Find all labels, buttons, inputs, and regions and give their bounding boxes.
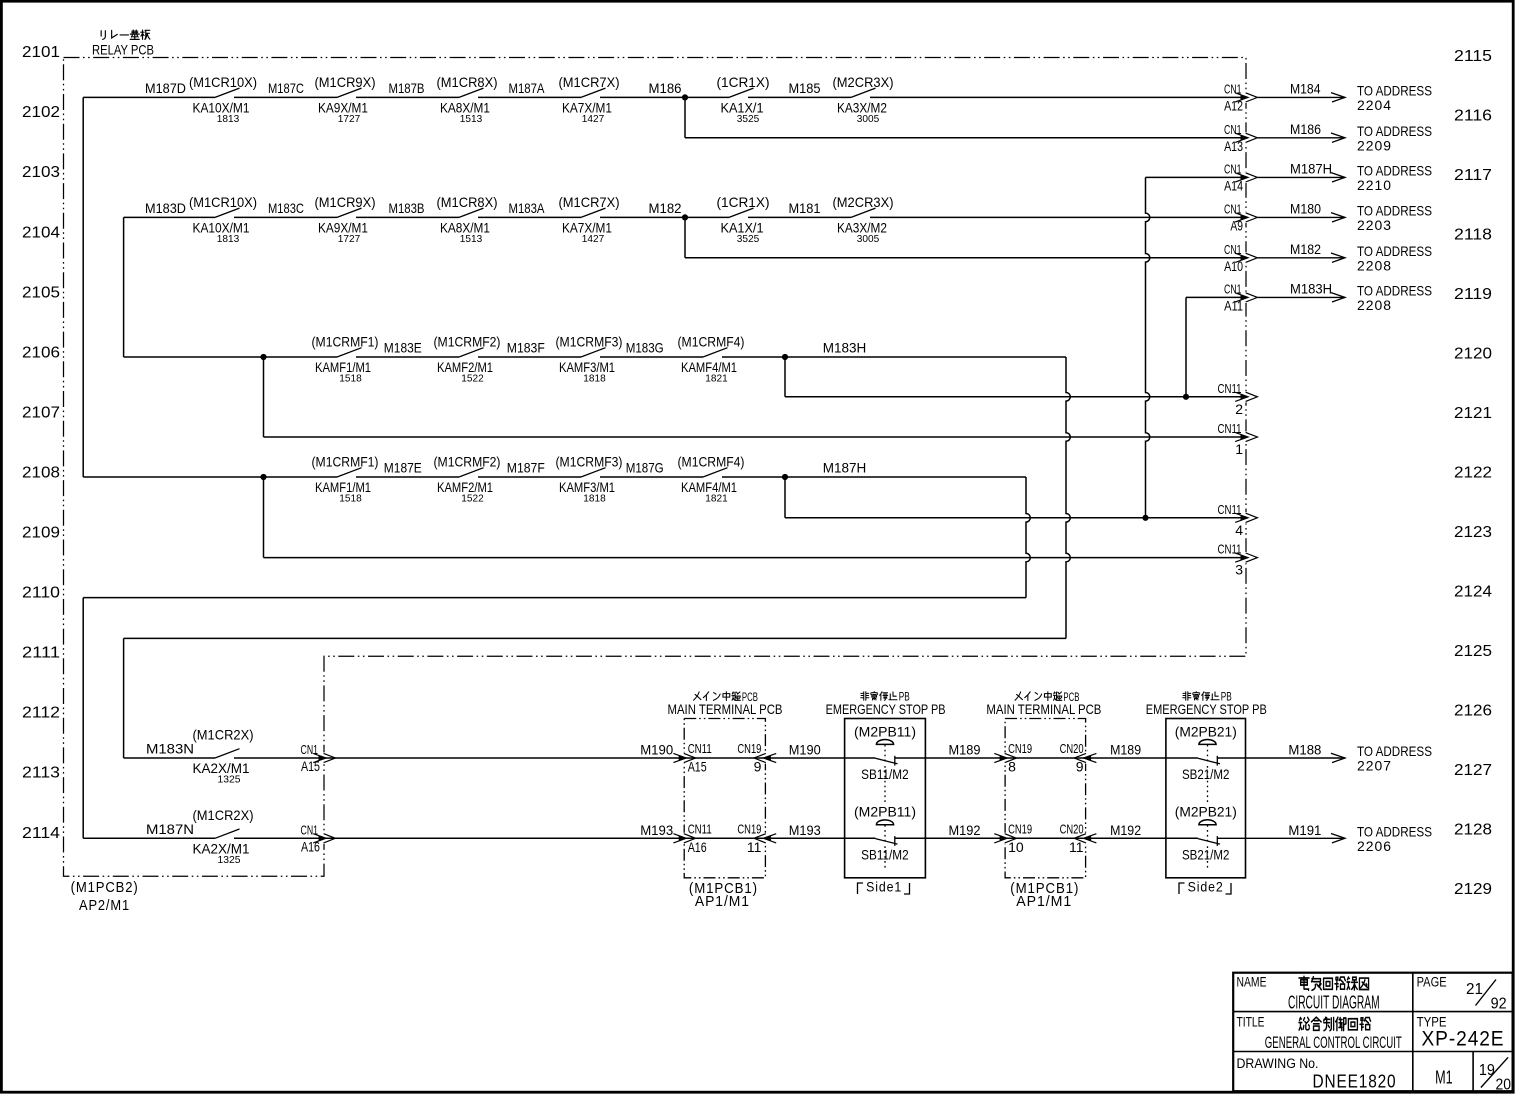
svg-text:(M1CRMF3): (M1CRMF3) (556, 454, 623, 470)
svg-text:TO ADDRESS: TO ADDRESS (1357, 282, 1432, 298)
svg-text:M190: M190 (789, 742, 821, 758)
svg-text:2108: 2108 (22, 464, 60, 481)
svg-text:(M1CR7X): (M1CR7X) (559, 194, 620, 210)
svg-text:(M1CRMF3): (M1CRMF3) (556, 334, 623, 350)
svg-text:2112: 2112 (22, 705, 60, 722)
svg-text:TO ADDRESS: TO ADDRESS (1357, 123, 1432, 139)
svg-text:CN1: CN1 (1224, 243, 1242, 257)
svg-text:2113: 2113 (22, 765, 60, 782)
svg-text:CN19: CN19 (737, 822, 761, 836)
svg-text:2106: 2106 (22, 344, 60, 361)
svg-text:M193: M193 (789, 822, 821, 838)
svg-text:2206: 2206 (1357, 838, 1392, 854)
svg-text:M188: M188 (1288, 742, 1321, 758)
svg-text:2126: 2126 (1454, 703, 1492, 720)
svg-text:20: 20 (1496, 1076, 1512, 1093)
svg-text:2101: 2101 (22, 44, 60, 61)
svg-text:1818: 1818 (583, 373, 606, 385)
svg-text:NAME: NAME (1237, 975, 1267, 990)
svg-text:4: 4 (1235, 522, 1243, 538)
svg-text:2124: 2124 (1454, 584, 1492, 601)
svg-text:2123: 2123 (1454, 524, 1492, 541)
svg-text:M183E: M183E (384, 340, 422, 356)
svg-text:2118: 2118 (1454, 227, 1492, 244)
svg-text:SB11/M2: SB11/M2 (861, 766, 909, 782)
svg-text:2104: 2104 (22, 224, 60, 241)
svg-text:XP-242E: XP-242E (1422, 1028, 1505, 1051)
svg-text:CIRCUIT DIAGRAM: CIRCUIT DIAGRAM (1288, 992, 1380, 1013)
svg-text:CN19: CN19 (1008, 742, 1032, 756)
svg-text:A16: A16 (688, 839, 707, 855)
svg-text:(M2CR3X): (M2CR3X) (833, 74, 894, 90)
svg-text:M187C: M187C (268, 80, 304, 96)
svg-text:9: 9 (1076, 759, 1084, 775)
svg-text:(M1CR8X): (M1CR8X) (437, 74, 498, 90)
svg-text:EMERGENCY STOP PB: EMERGENCY STOP PB (826, 701, 946, 717)
svg-text:TO ADDRESS: TO ADDRESS (1357, 162, 1432, 178)
svg-text:A16: A16 (301, 839, 320, 855)
svg-text:3525: 3525 (737, 113, 760, 125)
svg-text:2116: 2116 (1454, 108, 1492, 125)
svg-text:1821: 1821 (705, 493, 728, 505)
svg-text:M193: M193 (640, 822, 673, 838)
svg-text:M187F: M187F (507, 460, 545, 476)
svg-text:2114: 2114 (22, 825, 60, 842)
svg-text:CN1: CN1 (301, 823, 319, 837)
svg-text:2109: 2109 (22, 525, 60, 542)
svg-text:3005: 3005 (857, 113, 880, 125)
svg-text:92: 92 (1491, 996, 1507, 1013)
svg-text:(M1CR2X): (M1CR2X) (193, 807, 254, 823)
svg-text:CN11: CN11 (1218, 503, 1242, 517)
svg-text:M183G: M183G (626, 340, 664, 356)
svg-text:1513: 1513 (460, 113, 483, 125)
svg-text:2128: 2128 (1454, 822, 1492, 839)
svg-text:CN1: CN1 (1224, 82, 1242, 96)
svg-text:Side1: Side1 (866, 879, 902, 895)
svg-text:2111: 2111 (22, 645, 60, 662)
svg-text:DRAWING No.: DRAWING No. (1237, 1056, 1319, 1071)
svg-text:1325: 1325 (218, 774, 241, 786)
svg-text:A14: A14 (1224, 178, 1243, 194)
svg-text:11: 11 (747, 839, 762, 855)
svg-text:2103: 2103 (22, 164, 60, 181)
svg-text:(M1CRMF1): (M1CRMF1) (312, 454, 379, 470)
svg-text:2209: 2209 (1357, 137, 1392, 153)
svg-text:1513: 1513 (460, 233, 483, 245)
svg-text:M185: M185 (789, 80, 821, 96)
svg-text:(M1CR9X): (M1CR9X) (315, 74, 376, 90)
svg-text:M182: M182 (649, 200, 682, 216)
svg-text:2204: 2204 (1357, 97, 1392, 113)
svg-text:CN19: CN19 (737, 742, 761, 756)
svg-text:2121: 2121 (1454, 405, 1492, 422)
svg-text:1727: 1727 (338, 113, 361, 125)
svg-text:1818: 1818 (583, 493, 606, 505)
svg-text:SB11/M2: SB11/M2 (861, 846, 909, 862)
svg-text:AP1/M1: AP1/M1 (695, 893, 750, 910)
svg-text:2210: 2210 (1357, 177, 1392, 193)
svg-text:(M1CR10X): (M1CR10X) (189, 74, 257, 90)
svg-text:CN20: CN20 (1060, 822, 1084, 836)
svg-text:M187A: M187A (509, 80, 546, 96)
svg-text:M183H: M183H (1290, 281, 1332, 297)
svg-text:M183N: M183N (146, 741, 194, 757)
svg-text:PAGE: PAGE (1417, 975, 1447, 990)
svg-text:M192: M192 (949, 822, 981, 838)
svg-text:M191: M191 (1288, 822, 1321, 838)
svg-text:CN11: CN11 (1218, 543, 1242, 557)
svg-text:3525: 3525 (737, 233, 760, 245)
svg-text:CN20: CN20 (1060, 742, 1084, 756)
svg-text:CN1: CN1 (1224, 162, 1242, 176)
svg-text:TO ADDRESS: TO ADDRESS (1357, 823, 1432, 839)
svg-text:M1: M1 (1435, 1068, 1453, 1088)
svg-text:M180: M180 (1290, 201, 1321, 217)
svg-text:2120: 2120 (1454, 346, 1492, 363)
svg-text:1427: 1427 (582, 233, 605, 245)
svg-text:2102: 2102 (22, 104, 60, 121)
svg-text:EMERGENCY STOP PB: EMERGENCY STOP PB (1146, 701, 1267, 717)
svg-text:TO ADDRESS: TO ADDRESS (1357, 202, 1432, 218)
svg-text:8: 8 (1008, 759, 1016, 775)
svg-text:A12: A12 (1224, 98, 1243, 114)
svg-text:TO ADDRESS: TO ADDRESS (1357, 743, 1432, 759)
svg-text:M187D: M187D (145, 80, 186, 96)
svg-text:DNEE1820: DNEE1820 (1313, 1072, 1397, 1092)
svg-text:2: 2 (1235, 401, 1243, 417)
svg-text:M187G: M187G (626, 460, 664, 476)
svg-text:CN11: CN11 (1218, 422, 1242, 436)
svg-text:TO ADDRESS: TO ADDRESS (1357, 243, 1432, 259)
svg-text:M189: M189 (1110, 742, 1141, 758)
svg-text:M187N: M187N (146, 821, 194, 837)
svg-text:M187B: M187B (389, 80, 425, 96)
svg-text:21: 21 (1466, 981, 1483, 998)
svg-text:CN11: CN11 (688, 742, 712, 756)
svg-text:PCB: PCB (1063, 692, 1079, 704)
svg-text:(M2CR3X): (M2CR3X) (833, 194, 894, 210)
svg-text:1427: 1427 (582, 113, 605, 125)
svg-text:(M1CRMF4): (M1CRMF4) (678, 334, 745, 350)
svg-text:1727: 1727 (338, 233, 361, 245)
svg-text:PCB: PCB (742, 692, 758, 704)
svg-text:9: 9 (754, 759, 762, 775)
svg-text:CN1: CN1 (1224, 123, 1242, 137)
svg-text:M181: M181 (789, 200, 821, 216)
svg-text:2203: 2203 (1357, 217, 1392, 233)
svg-text:2127: 2127 (1454, 762, 1492, 779)
svg-text:2207: 2207 (1357, 758, 1392, 774)
svg-text:M182: M182 (1290, 241, 1321, 257)
svg-text:M186: M186 (649, 80, 682, 96)
svg-text:3005: 3005 (857, 233, 880, 245)
svg-text:(1CR1X): (1CR1X) (717, 74, 770, 90)
svg-text:(1CR1X): (1CR1X) (717, 194, 770, 210)
svg-text:2208: 2208 (1357, 297, 1392, 313)
svg-text:(M1CR2X): (M1CR2X) (193, 727, 254, 743)
svg-text:2110: 2110 (22, 585, 60, 602)
svg-text:M190: M190 (640, 742, 673, 758)
svg-text:(M1CRMF2): (M1CRMF2) (434, 454, 501, 470)
svg-text:2208: 2208 (1357, 257, 1392, 273)
svg-text:2115: 2115 (1454, 48, 1492, 65)
svg-text:2107: 2107 (22, 404, 60, 421)
svg-text:A11: A11 (1224, 298, 1243, 314)
svg-text:(M1CR7X): (M1CR7X) (559, 74, 620, 90)
svg-text:PB: PB (1221, 692, 1232, 704)
svg-text:3: 3 (1235, 562, 1243, 578)
svg-text:A15: A15 (301, 758, 320, 774)
svg-text:2105: 2105 (22, 284, 60, 301)
svg-text:(M2PB11): (M2PB11) (854, 723, 916, 739)
svg-text:1522: 1522 (461, 373, 484, 385)
svg-text:A10: A10 (1224, 258, 1243, 274)
svg-text:M184: M184 (1290, 81, 1321, 97)
svg-text:PB: PB (899, 692, 910, 704)
svg-text:2117: 2117 (1454, 167, 1492, 184)
svg-text:(M2PB21): (M2PB21) (1175, 723, 1237, 739)
svg-text:CN1: CN1 (1224, 202, 1242, 216)
svg-text:A13: A13 (1224, 138, 1243, 154)
svg-text:MAIN TERMINAL PCB: MAIN TERMINAL PCB (986, 701, 1101, 717)
svg-text:SB21/M2: SB21/M2 (1182, 766, 1230, 782)
svg-text:SB21/M2: SB21/M2 (1182, 846, 1230, 862)
svg-text:A9: A9 (1230, 218, 1243, 234)
svg-text:MAIN TERMINAL PCB: MAIN TERMINAL PCB (668, 701, 783, 717)
svg-text:19: 19 (1479, 1062, 1495, 1079)
svg-text:TO ADDRESS: TO ADDRESS (1357, 82, 1432, 98)
svg-text:GENERAL CONTROL CIRCUIT: GENERAL CONTROL CIRCUIT (1265, 1033, 1402, 1052)
svg-text:M187E: M187E (384, 460, 422, 476)
svg-text:AP2/M1: AP2/M1 (79, 897, 130, 914)
svg-text:CN19: CN19 (1008, 822, 1032, 836)
svg-text:2129: 2129 (1454, 881, 1492, 898)
svg-text:1518: 1518 (339, 373, 362, 385)
svg-text:M183B: M183B (389, 200, 425, 216)
svg-text:AP1/M1: AP1/M1 (1016, 893, 1072, 910)
svg-text:(M1CRMF2): (M1CRMF2) (434, 334, 501, 350)
svg-text:M186: M186 (1290, 121, 1321, 137)
svg-text:(M1CR9X): (M1CR9X) (315, 194, 376, 210)
svg-text:1: 1 (1235, 441, 1243, 457)
svg-text:(M1CR10X): (M1CR10X) (189, 194, 257, 210)
svg-text:M183A: M183A (509, 200, 546, 216)
svg-text:2125: 2125 (1454, 643, 1492, 660)
svg-text:M187H: M187H (1290, 161, 1332, 177)
svg-text:M192: M192 (1110, 822, 1141, 838)
svg-text:(M1CRMF1): (M1CRMF1) (312, 334, 379, 350)
svg-text:CN11: CN11 (688, 822, 712, 836)
svg-text:CN11: CN11 (1218, 382, 1242, 396)
svg-text:1325: 1325 (218, 854, 241, 866)
svg-text:M189: M189 (949, 742, 981, 758)
svg-text:1813: 1813 (217, 233, 240, 245)
svg-text:1522: 1522 (461, 493, 484, 505)
svg-text:10: 10 (1008, 839, 1024, 855)
svg-text:2119: 2119 (1454, 286, 1492, 303)
svg-text:1821: 1821 (705, 373, 728, 385)
svg-text:2122: 2122 (1454, 465, 1492, 482)
svg-text:M183C: M183C (268, 200, 304, 216)
svg-text:(M2PB11): (M2PB11) (854, 804, 916, 820)
svg-text:A15: A15 (688, 759, 707, 775)
svg-text:M187H: M187H (823, 460, 867, 476)
svg-text:(M1CR8X): (M1CR8X) (437, 194, 498, 210)
svg-text:RELAY PCB: RELAY PCB (92, 42, 154, 58)
svg-text:M183H: M183H (823, 340, 867, 356)
svg-text:11: 11 (1069, 839, 1084, 855)
svg-text:1813: 1813 (217, 113, 240, 125)
svg-text:(M1CRMF4): (M1CRMF4) (678, 454, 745, 470)
svg-text:Side2: Side2 (1188, 879, 1224, 895)
svg-text:CN1: CN1 (301, 743, 319, 757)
svg-text:(M2PB21): (M2PB21) (1175, 804, 1237, 820)
svg-text:TITLE: TITLE (1237, 1014, 1265, 1029)
svg-text:M183F: M183F (507, 340, 545, 356)
svg-text:(M1PCB2): (M1PCB2) (71, 879, 139, 896)
svg-text:M183D: M183D (145, 200, 186, 216)
svg-text:CN1: CN1 (1224, 282, 1242, 296)
svg-text:1518: 1518 (339, 493, 362, 505)
